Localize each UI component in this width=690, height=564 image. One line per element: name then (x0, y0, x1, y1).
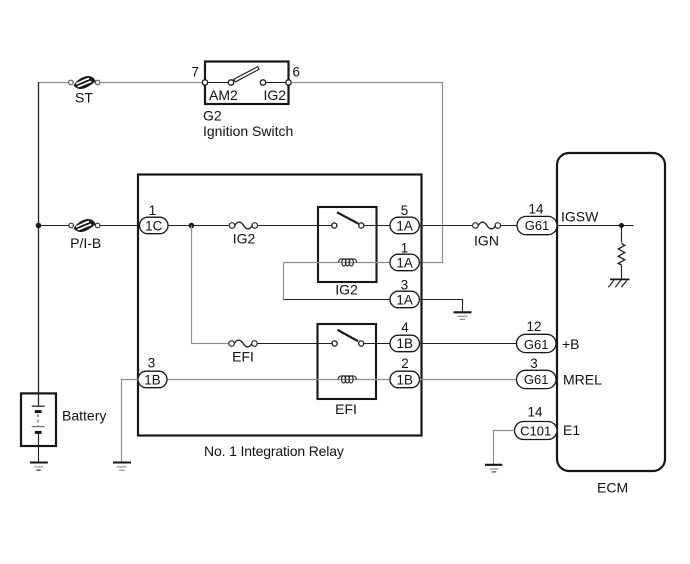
connector 1A pin 1 (390, 254, 419, 271)
svg-text:5: 5 (401, 203, 408, 218)
svg-text:Ignition Switch: Ignition Switch (203, 123, 293, 139)
junction node: battery feed / P-I-B (36, 223, 42, 229)
svg-text:G61: G61 (524, 372, 549, 387)
wire: IG2 fuse to relay box (257, 225, 332, 227)
svg-text:1: 1 (149, 203, 156, 218)
svg-text:1B: 1B (397, 372, 413, 387)
wire: ignition switch pin 6 to right drop (291, 83, 442, 263)
wire: P/I-B fuse to connector 1C (100, 225, 140, 227)
svg-text:7: 7 (192, 65, 199, 80)
junction node: IGSW pulldown (619, 223, 624, 228)
svg-text:12: 12 (527, 319, 542, 334)
No. 1 Integration Relay box (138, 175, 422, 436)
wire: IGSW internal (557, 225, 634, 227)
connector G61 pin 3 (517, 370, 557, 388)
wire: left vertical feed (38, 82, 40, 392)
ground (battery) (30, 463, 48, 471)
ground (E1) (485, 465, 502, 472)
svg-text:1B: 1B (144, 372, 160, 387)
fuse IG2 (229, 222, 257, 229)
wire: node to P/I-B fuse (39, 225, 69, 227)
ignition switch pin 7 terminal (202, 80, 207, 85)
svg-text:1A: 1A (396, 218, 412, 233)
svg-text:1: 1 (401, 241, 408, 256)
svg-text:3: 3 (148, 356, 155, 371)
svg-text:14: 14 (529, 202, 544, 217)
wire: coil return to 1A pin 3 (284, 299, 391, 301)
wire: 1B pin 4 to ECM pin +B (420, 343, 517, 345)
connector 1A pin 5 (390, 217, 419, 234)
wire: IG2 contact to pin 6 (266, 82, 286, 84)
relay EFI coil (338, 376, 357, 383)
resistor (IGSW pulldown) (618, 244, 625, 265)
chassis ground (IGSW pulldown) (608, 279, 629, 287)
svg-text:1B: 1B (397, 336, 413, 351)
relay EFI contact left (332, 341, 337, 346)
junction node: IG2/EFI branch (189, 223, 195, 229)
connector 1A pin 3 (390, 291, 419, 308)
relay IG2 contact left (332, 223, 337, 228)
svg-text:IG2: IG2 (264, 87, 287, 103)
svg-text:E1: E1 (563, 422, 580, 438)
svg-text:2: 2 (401, 356, 408, 371)
svg-text:3: 3 (401, 278, 408, 293)
svg-text:C101: C101 (520, 423, 551, 438)
svg-text:6: 6 (293, 65, 300, 80)
svg-text:G61: G61 (525, 218, 550, 233)
wire: pulldown bottom (621, 265, 623, 279)
ground (1A pin 3) (454, 312, 472, 319)
wire: 1C to junction (168, 225, 230, 227)
fuse EFI (229, 340, 257, 347)
relay EFI lever (337, 330, 358, 341)
fuse IGN (473, 222, 501, 229)
wire: ST fuse to ignition switch pin 7 (100, 82, 205, 84)
ground (integration relay) (113, 463, 131, 471)
svg-text:1C: 1C (145, 219, 162, 234)
svg-text:ST: ST (75, 90, 93, 106)
connector 1B pin 2 (390, 371, 420, 388)
svg-text:IGSW: IGSW (561, 209, 599, 225)
wire: 1B pin 3 to relay ground (122, 380, 139, 462)
svg-text:14: 14 (528, 405, 543, 420)
svg-text:ECM: ECM (597, 480, 628, 496)
svg-text:IG2: IG2 (335, 282, 358, 298)
ignition switch contact IG2 (260, 80, 265, 85)
wire: coil return drop (283, 263, 285, 300)
wire: pin 7 to AM2 contact (208, 82, 229, 84)
connector G61 pin 14 (517, 216, 557, 234)
svg-text:1A: 1A (396, 255, 412, 270)
relay IG2 box (318, 207, 377, 282)
wire: 1A pin 5 to IGN fuse (419, 225, 473, 227)
svg-text:1A: 1A (396, 292, 412, 307)
ignition switch G2 box (205, 62, 289, 105)
wire: relay IG2 contact to 1A pin 5 (364, 225, 390, 227)
connector G61 pin 12 (517, 334, 557, 352)
wire: battery to ground (38, 446, 40, 462)
svg-text:No. 1 Integration Relay: No. 1 Integration Relay (204, 443, 344, 459)
ECM box (557, 153, 665, 471)
wire: 1A pin 3 to ground (420, 300, 463, 312)
relay IG2 lever (337, 212, 358, 223)
fusible link ST (69, 76, 100, 89)
connector 1B pin 4 (390, 335, 420, 352)
svg-text:P/I-B: P/I-B (70, 235, 101, 251)
svg-text:AM2: AM2 (209, 87, 238, 103)
wire: EFI fuse to relay box (257, 343, 332, 345)
relay EFI box (318, 324, 377, 399)
connector 1C (140, 217, 169, 234)
svg-text:3: 3 (530, 356, 537, 371)
wire: relay EFI contact to 1B pin 4 (364, 343, 390, 345)
svg-text:IG2: IG2 (233, 231, 256, 247)
svg-text:IGN: IGN (474, 233, 499, 249)
ignition switch contact AM2 (228, 80, 233, 85)
wire: branch to EFI fuse (192, 226, 230, 344)
wire: IGN fuse to ECM pin IGSW (500, 225, 517, 227)
svg-text:Battery: Battery (62, 408, 106, 424)
ignition switch pin 6 terminal (286, 80, 291, 85)
svg-text:EFI: EFI (232, 349, 254, 365)
wire: top feed from node to ST fuse (38, 82, 69, 84)
relay EFI coil wire (167, 379, 390, 381)
relay IG2 coil wire (284, 262, 391, 264)
relay IG2 contact right (359, 223, 364, 228)
connector C101 pin 14 (515, 422, 558, 440)
svg-text:G2: G2 (203, 108, 222, 124)
wire: 1B pin 2 to ECM pin MREL (420, 379, 517, 381)
relay IG2 coil (338, 259, 357, 266)
svg-text:4: 4 (401, 320, 409, 335)
wire: E1 to ground (494, 431, 515, 464)
svg-text:MREL: MREL (563, 372, 602, 388)
ignition switch lever (234, 67, 260, 82)
battery (21, 392, 56, 446)
fusible link P/I-B (69, 219, 100, 232)
relay EFI contact right (359, 341, 364, 346)
svg-text:+B: +B (562, 336, 580, 352)
wire: pulldown top (621, 226, 623, 243)
svg-text:G61: G61 (524, 337, 549, 352)
svg-text:EFI: EFI (335, 401, 357, 417)
connector 1B pin 3 (138, 371, 167, 388)
